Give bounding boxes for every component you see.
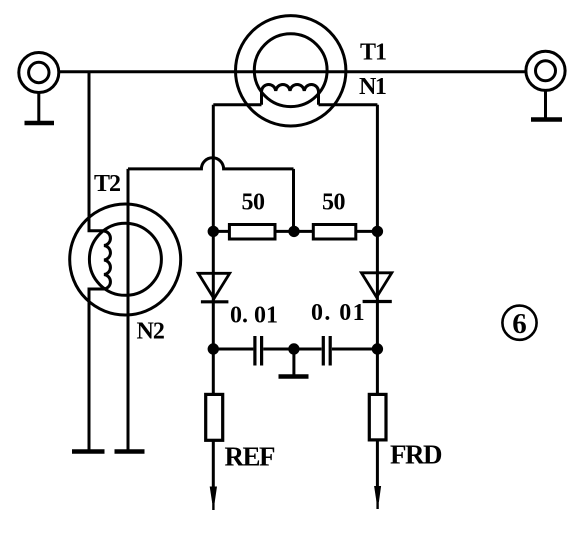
svg-text:T2: T2 <box>94 171 120 197</box>
wire: centre tap drop to resistor junction <box>292 169 295 232</box>
svg-text:0. 01: 0. 01 <box>311 300 366 326</box>
diode D2 (right) <box>361 273 391 302</box>
arrow (FRD output) <box>374 486 381 509</box>
wire: capacitor row left segment <box>213 348 253 351</box>
node: centre capacitor junction <box>290 345 298 353</box>
wire: N2 bottom lead to ground <box>89 289 104 450</box>
wire: resistor row left segment <box>213 230 229 233</box>
ground (T2 through-line) <box>115 449 145 454</box>
node: right resistor junction <box>373 227 381 235</box>
wire: right branch vertical (N1 right lead down to FRD resistor) <box>376 105 379 395</box>
node: right capacitor junction <box>373 345 381 353</box>
transformer T2 core (toroid) <box>70 204 181 315</box>
resistor R3 (REF output) <box>206 394 223 440</box>
winding N2 of T2 <box>104 231 110 289</box>
wire: capacitor row right segment <box>332 348 378 351</box>
node: left capacitor junction <box>209 345 217 353</box>
svg-text:N1: N1 <box>359 74 386 100</box>
diode D1 (left) <box>198 273 229 302</box>
wire: horizontal from T2 line to centre tap, with hop over left branch <box>128 158 294 169</box>
svg-text:N2: N2 <box>137 319 164 345</box>
winding N1 of T1 <box>262 84 319 104</box>
svg-text:FRD: FRD <box>390 440 442 470</box>
wire: rail junction down to T2 winding top <box>89 72 104 231</box>
terminal J2 (right coax connector) <box>526 51 565 90</box>
arrow (REF output) <box>210 487 217 511</box>
wire: top rail from J1 to J2 <box>59 70 527 73</box>
ground (capacitor centre tap) <box>279 349 309 377</box>
wire: left branch vertical (N1 left lead down to REF resistor) <box>212 105 215 395</box>
resistor R1 50 (left) <box>229 225 275 240</box>
svg-text:50: 50 <box>322 190 346 216</box>
svg-text:0. 01: 0. 01 <box>230 303 278 329</box>
wire: FRD output lead <box>376 440 379 496</box>
capacitor C2 0.01 <box>323 336 330 366</box>
node: left resistor junction <box>209 227 217 235</box>
ground (right terminal) <box>531 90 562 119</box>
svg-text:T1: T1 <box>360 40 386 66</box>
svg-text:6: 6 <box>512 308 527 340</box>
capacitor C1 0.01 <box>255 336 262 366</box>
wire: capacitor row centre-left segment <box>263 348 321 351</box>
transformer T1 core (toroid) <box>236 16 346 126</box>
terminal J1 (left coax connector) <box>19 53 59 93</box>
wire: line through T2 core down to ground <box>127 169 130 450</box>
wire: resistor row right segment <box>356 230 378 233</box>
svg-text:REF: REF <box>225 442 276 472</box>
wire: N1 right lead <box>319 103 378 106</box>
resistor R2 50 (right) <box>313 225 356 240</box>
node: centre resistor junction <box>290 227 298 235</box>
ground (left terminal) <box>25 93 55 124</box>
wire: resistor row middle segment <box>275 230 313 233</box>
wire: N1 left lead <box>213 103 261 106</box>
svg-text:50: 50 <box>242 190 266 216</box>
resistor R4 (FRD output) <box>369 394 386 440</box>
figure number 6 (circled) <box>502 306 536 340</box>
wire: REF output lead <box>212 440 215 497</box>
ground (N2 lead) <box>72 449 105 454</box>
